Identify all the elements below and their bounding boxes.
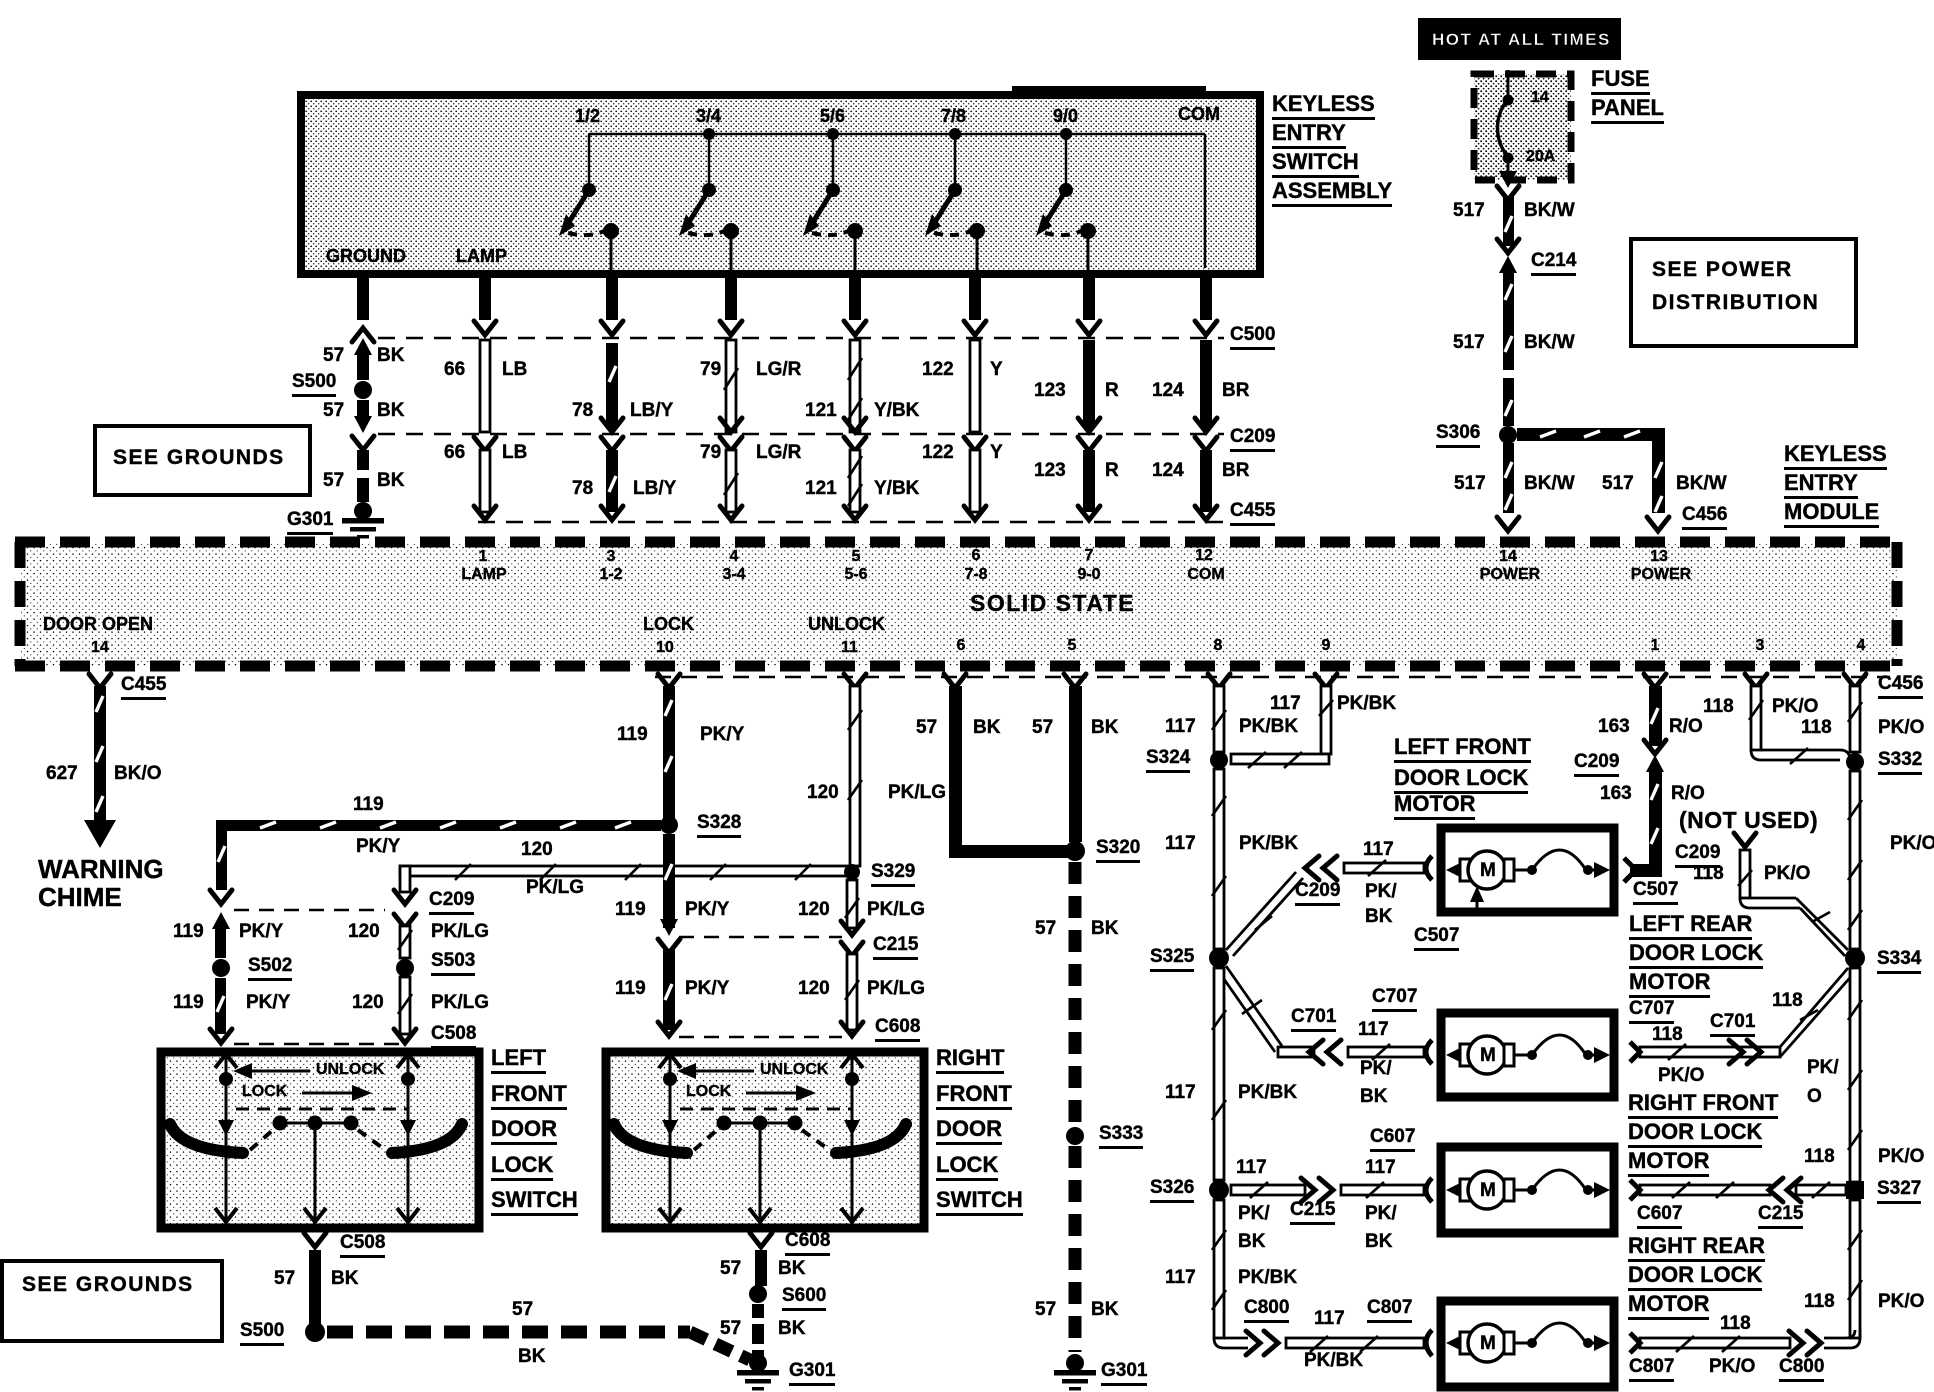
- wire 119 PK/Y to switch: [210, 978, 232, 1043]
- wire 123 R lower: [1078, 437, 1100, 520]
- wire 627 BK/O pin14: [84, 674, 116, 848]
- stub wire 1-2: [601, 274, 623, 335]
- wire 119 PK/Y to S502: [212, 912, 230, 958]
- motor M3: [1446, 1170, 1610, 1209]
- label 517 BK/W 1: [1453, 201, 1485, 221]
- label ground lamp: [326, 247, 406, 266]
- wire 123 R upper: [1078, 340, 1100, 432]
- label not used: [1679, 808, 1818, 832]
- label C456 top: [1682, 505, 1727, 530]
- ground G301 right: [1054, 1354, 1096, 1391]
- label 120 PK/LG horiz: [521, 840, 553, 860]
- label PK/O col: [1890, 834, 1934, 854]
- left switch rocker arcs: [170, 1124, 462, 1153]
- label C507 right: [1633, 880, 1678, 905]
- wire 517 BK/W branch to pin 13: [1517, 428, 1669, 531]
- labels pin8 bottom: [1165, 1268, 1196, 1288]
- wire 118 PK/O S334 to S327: [1848, 968, 1862, 1182]
- stub wire 3-4: [720, 274, 742, 335]
- label S333: [1099, 1124, 1143, 1149]
- label 119 PK/Y pin10: [617, 725, 648, 745]
- label see power distribution: [1652, 254, 1819, 319]
- right switch middle post: [749, 1123, 771, 1222]
- wire 119 PK/Y horizontal: [210, 820, 661, 904]
- labels pin8 pin9: [1165, 717, 1196, 737]
- motor M1: [1446, 850, 1610, 889]
- right switch right post: [841, 1054, 863, 1222]
- switch bus wire: [589, 134, 1205, 268]
- motor box right rear: [1441, 1301, 1614, 1387]
- label S325: [1150, 947, 1194, 972]
- label 120 PK/LG pin11: [807, 783, 839, 803]
- label keyless entry switch assembly: [0, 0, 1, 1]
- wire 57 BK ground upper: [354, 338, 372, 380]
- label S326: [1150, 1178, 1194, 1203]
- connector row C215 left: [679, 936, 842, 939]
- label switch positions: [575, 107, 600, 126]
- stub wire 9-0: [1078, 274, 1100, 335]
- module pin labels top: [479, 549, 488, 566]
- label 57 BK below S320: [1035, 919, 1056, 939]
- labels motor2 wires: [1291, 1007, 1336, 1032]
- wire 120 PK/LG to switch: [394, 977, 416, 1043]
- label 117 bottom middle: [1164, 1273, 1166, 1275]
- wire 117 PK/BK S324 to S325: [1212, 769, 1226, 949]
- label 57 BK dashed: [512, 1300, 533, 1320]
- motor box left front: [1441, 828, 1614, 912]
- switch 7/8: [925, 128, 985, 270]
- splice S503: [396, 959, 414, 977]
- wire 66 LB upper: [480, 340, 490, 432]
- label S332: [1878, 750, 1922, 775]
- wire 118 PK/O motor3 to S327: [1630, 1178, 1846, 1202]
- label fuse panel: [0, 0, 1, 1]
- labels wire grid row1: [323, 346, 344, 366]
- switch box labels right: [760, 1062, 828, 1079]
- wire 79 LG/R upper: [720, 340, 742, 432]
- arrow C507 below motor1: [1470, 886, 1484, 916]
- wire 117 PK/BK C215 to motor3: [1341, 1178, 1432, 1202]
- wire 117 PK/BK pin8 upper: [1208, 674, 1230, 752]
- connector row C608: [679, 1036, 842, 1039]
- wire 57 BK dashed S320 to S333: [1069, 862, 1082, 1125]
- labels right front door lock motor: [0, 0, 1, 1]
- wire 120 PK/LG pin11 lower: [841, 942, 863, 1036]
- label C455: [1230, 501, 1275, 526]
- labels pin3 pin4: [1703, 697, 1734, 717]
- splice S502: [212, 959, 230, 977]
- wire 118 PK/O motor2 diag to S334: [1630, 968, 1855, 1064]
- label C508 bottom: [340, 1233, 385, 1258]
- wire 124 BR upper: [1195, 340, 1217, 432]
- connector row C508: [234, 1043, 400, 1046]
- keyless entry switch assembly box: [301, 86, 1260, 274]
- right switch contact bar: [717, 1116, 803, 1131]
- switch box labels left: [316, 1062, 384, 1079]
- right switch unlock arrow: [677, 1063, 754, 1079]
- wire 120 PK/LG to S503: [394, 914, 416, 958]
- wire 118 PK/O pin3: [1745, 674, 1850, 764]
- label fuse 20A: [1526, 149, 1555, 166]
- splice S326: [1209, 1180, 1229, 1200]
- left switch left post: [215, 1054, 237, 1222]
- wire 121 Y/BK lower: [844, 437, 866, 520]
- hot at all times box: [1418, 18, 1621, 60]
- switch 1/2: [559, 134, 619, 270]
- right switch lock arrow: [746, 1085, 816, 1101]
- left switch contact bar: [273, 1116, 359, 1131]
- wire 117 PK/BK S325 to S326: [1212, 968, 1226, 1180]
- splice S324: [1210, 751, 1228, 769]
- label C209 left: [429, 890, 474, 915]
- connector row C209: [378, 433, 1224, 436]
- wire 517 BK/W to pin 14: [1497, 443, 1519, 531]
- wire 78 LB/Y lower: [601, 437, 623, 520]
- right switch rocker arcs: [614, 1124, 906, 1153]
- wire 117 PK/BK diag to C209: [1226, 856, 1337, 956]
- wire 118 PK/O S332 to S334: [1848, 771, 1862, 949]
- wire 57 BK C608: [750, 1233, 772, 1286]
- stub wire 7-8: [964, 274, 986, 335]
- label S324: [1146, 748, 1190, 773]
- label S306: [1436, 423, 1480, 448]
- wire 117 PK/BK diag to C701: [1219, 966, 1341, 1064]
- fuse panel box: [1474, 74, 1571, 180]
- labels motor4 wires right: [1720, 1314, 1751, 1334]
- wire 122 Y upper: [970, 340, 980, 432]
- splice S327: [1846, 1181, 1864, 1199]
- see grounds box bottom: [2, 1261, 222, 1341]
- label C608 bottom: [785, 1231, 830, 1256]
- wire 118 PK/O S327 down: [1848, 1200, 1862, 1338]
- splice S306: [1499, 426, 1517, 444]
- labels C209 118 PK/O: [1675, 843, 1720, 868]
- wire 57 BK dashed S333 to G301: [1069, 1146, 1082, 1352]
- connector row C456 below module: [655, 676, 1890, 679]
- wire 117 PK/BK C209 to motor1: [1344, 856, 1432, 880]
- label S502 S503: [248, 956, 292, 981]
- label solid state: [970, 591, 1135, 615]
- wire 120 PK/LG horizontal: [394, 864, 855, 904]
- wire 57 BK S600 to G301: [752, 1304, 764, 1358]
- wire 117 PK/BK S326 down to C800: [1212, 1200, 1278, 1355]
- wire 78 LB/Y upper: [601, 343, 623, 432]
- connector row C500: [378, 337, 1224, 340]
- stub wire com: [1195, 274, 1217, 335]
- wire 79 LG/R lower: [720, 437, 742, 520]
- motor M4: [1446, 1323, 1610, 1362]
- splice S325: [1209, 948, 1229, 968]
- label C456 bottom: [1878, 674, 1923, 699]
- wire 118 PK/O pin4: [1844, 674, 1866, 752]
- label warning chime: [38, 856, 164, 911]
- label C214: [1531, 251, 1576, 276]
- wire 57 BK pin6: [944, 674, 1069, 858]
- wire 57 BK ground mid: [354, 400, 372, 433]
- splice S333: [1066, 1127, 1084, 1145]
- motor box right front: [1441, 1147, 1614, 1233]
- wire 124 BR lower: [1195, 437, 1217, 520]
- wire 66 LB lower: [474, 437, 496, 520]
- left switch dashed line: [236, 1108, 408, 1111]
- labels motor1 feed: [1363, 840, 1394, 860]
- label 119 PK/Y horiz: [353, 795, 384, 815]
- wire 163 R/O pin1: [1624, 674, 1666, 882]
- connector C214: [1499, 256, 1517, 273]
- stub wire 5-6: [844, 274, 866, 335]
- wire 119 PK/Y pin10 upper: [658, 674, 680, 822]
- motor box left rear: [1441, 1013, 1614, 1097]
- see grounds box top: [95, 426, 310, 495]
- right front door lock switch box: [606, 1052, 924, 1228]
- splice S500: [354, 381, 372, 399]
- label S320: [1096, 838, 1140, 863]
- ground stub wire: [352, 274, 374, 342]
- wire 117 PK/BK pin9: [1231, 674, 1337, 768]
- labels motor3 wires: [1236, 1158, 1267, 1178]
- left switch right post: [397, 1054, 419, 1222]
- label S334: [1877, 949, 1921, 974]
- right switch dashed line: [680, 1108, 852, 1111]
- label hot at all times: [1432, 31, 1611, 49]
- labels left rear door lock motor: [0, 0, 1, 1]
- motor M2: [1446, 1035, 1610, 1074]
- label 517 BK/W 3: [1454, 474, 1486, 494]
- labels right rear door lock motor: [0, 0, 1, 1]
- left switch middle post: [304, 1123, 326, 1222]
- labels pin6 pin5: [916, 718, 937, 738]
- labels 163 R/O: [1598, 717, 1630, 737]
- label see grounds bottom: [22, 1274, 194, 1296]
- label C209: [1230, 427, 1275, 452]
- ground G301 left: [737, 1354, 779, 1391]
- wire 57 BK pin5: [1064, 674, 1086, 842]
- labels left front door lock motor: [0, 0, 1, 1]
- wire 118 PK/O motor4 to C800: [1630, 1330, 1860, 1355]
- wire 57 BK dashed to G301: [327, 1332, 750, 1360]
- label 627 BK/O: [46, 764, 78, 784]
- wire 517 BK/W mid: [1503, 272, 1514, 426]
- wire 122 Y lower: [964, 437, 986, 520]
- switch 9/0: [1036, 128, 1096, 270]
- label S500 bottom: [240, 1321, 284, 1346]
- label G301 left: [789, 1361, 835, 1386]
- label 57 BK below S333: [1035, 1300, 1056, 1320]
- label 517 BK/W 2: [1453, 333, 1485, 353]
- splice S328: [660, 816, 678, 834]
- splice S320: [1065, 841, 1085, 861]
- wire 119 PK/Y pin10 lower: [658, 834, 680, 1036]
- label C215 left: [873, 935, 918, 960]
- label C608 right: [875, 1017, 920, 1042]
- switch 3/4: [679, 128, 739, 270]
- keyless entry module box: [15, 542, 1903, 666]
- connector row C455: [478, 521, 1224, 524]
- wire 517 BK/W upper: [1497, 196, 1519, 253]
- left switch lock arrow: [302, 1085, 372, 1101]
- fuse 14 20A: [1497, 70, 1519, 200]
- wire 57 BK ground lower: [352, 436, 374, 502]
- label C455 pin14: [121, 675, 166, 700]
- label S327: [1877, 1179, 1921, 1204]
- module pin labels bottom: [43, 615, 153, 634]
- wire 117 PK/BK C701 to motor2: [1348, 1040, 1432, 1064]
- splice S329: [844, 864, 860, 880]
- lamp stub wire: [474, 274, 496, 335]
- splice S334: [1845, 948, 1865, 968]
- left front door lock switch box: [161, 1052, 479, 1228]
- label S329: [871, 862, 915, 887]
- see power distribution box: [1631, 239, 1856, 346]
- wire 120 PK/LG pin11: [844, 674, 866, 866]
- label see grounds top: [113, 447, 285, 469]
- label S328: [697, 813, 741, 838]
- wire not used: [1734, 833, 1848, 956]
- wire 57 BK C508: [304, 1233, 326, 1328]
- ground G301: [342, 502, 384, 539]
- labels 119/120 row B: [173, 993, 204, 1013]
- splice S332: [1846, 753, 1864, 771]
- wire 120 PK/LG S329 to C215: [841, 880, 863, 935]
- motor M letters: [1480, 861, 1496, 881]
- label keyless entry module: [0, 0, 1, 1]
- label S600: [782, 1286, 826, 1311]
- switch 5/6: [803, 128, 863, 270]
- label G301 right: [1101, 1361, 1147, 1386]
- labels 119/120 row A: [173, 922, 204, 942]
- left switch unlock arrow: [233, 1063, 310, 1079]
- label C508 right: [431, 1024, 476, 1049]
- splice S600: [749, 1285, 767, 1303]
- label fuse 14: [1531, 90, 1549, 107]
- wire 121 Y/BK upper: [844, 340, 866, 432]
- label 517 BK/W 4: [1602, 474, 1634, 494]
- connector row C209 left: [234, 909, 385, 912]
- wire 117 PK/BK C800 to motor4: [1286, 1330, 1432, 1356]
- wire 117 PK/BK S326 to C215: [1231, 1178, 1333, 1202]
- splice S500 lower: [305, 1322, 325, 1342]
- label C500: [1230, 325, 1275, 350]
- labels pin10/11 mid: [615, 900, 646, 920]
- right switch left post: [659, 1054, 681, 1222]
